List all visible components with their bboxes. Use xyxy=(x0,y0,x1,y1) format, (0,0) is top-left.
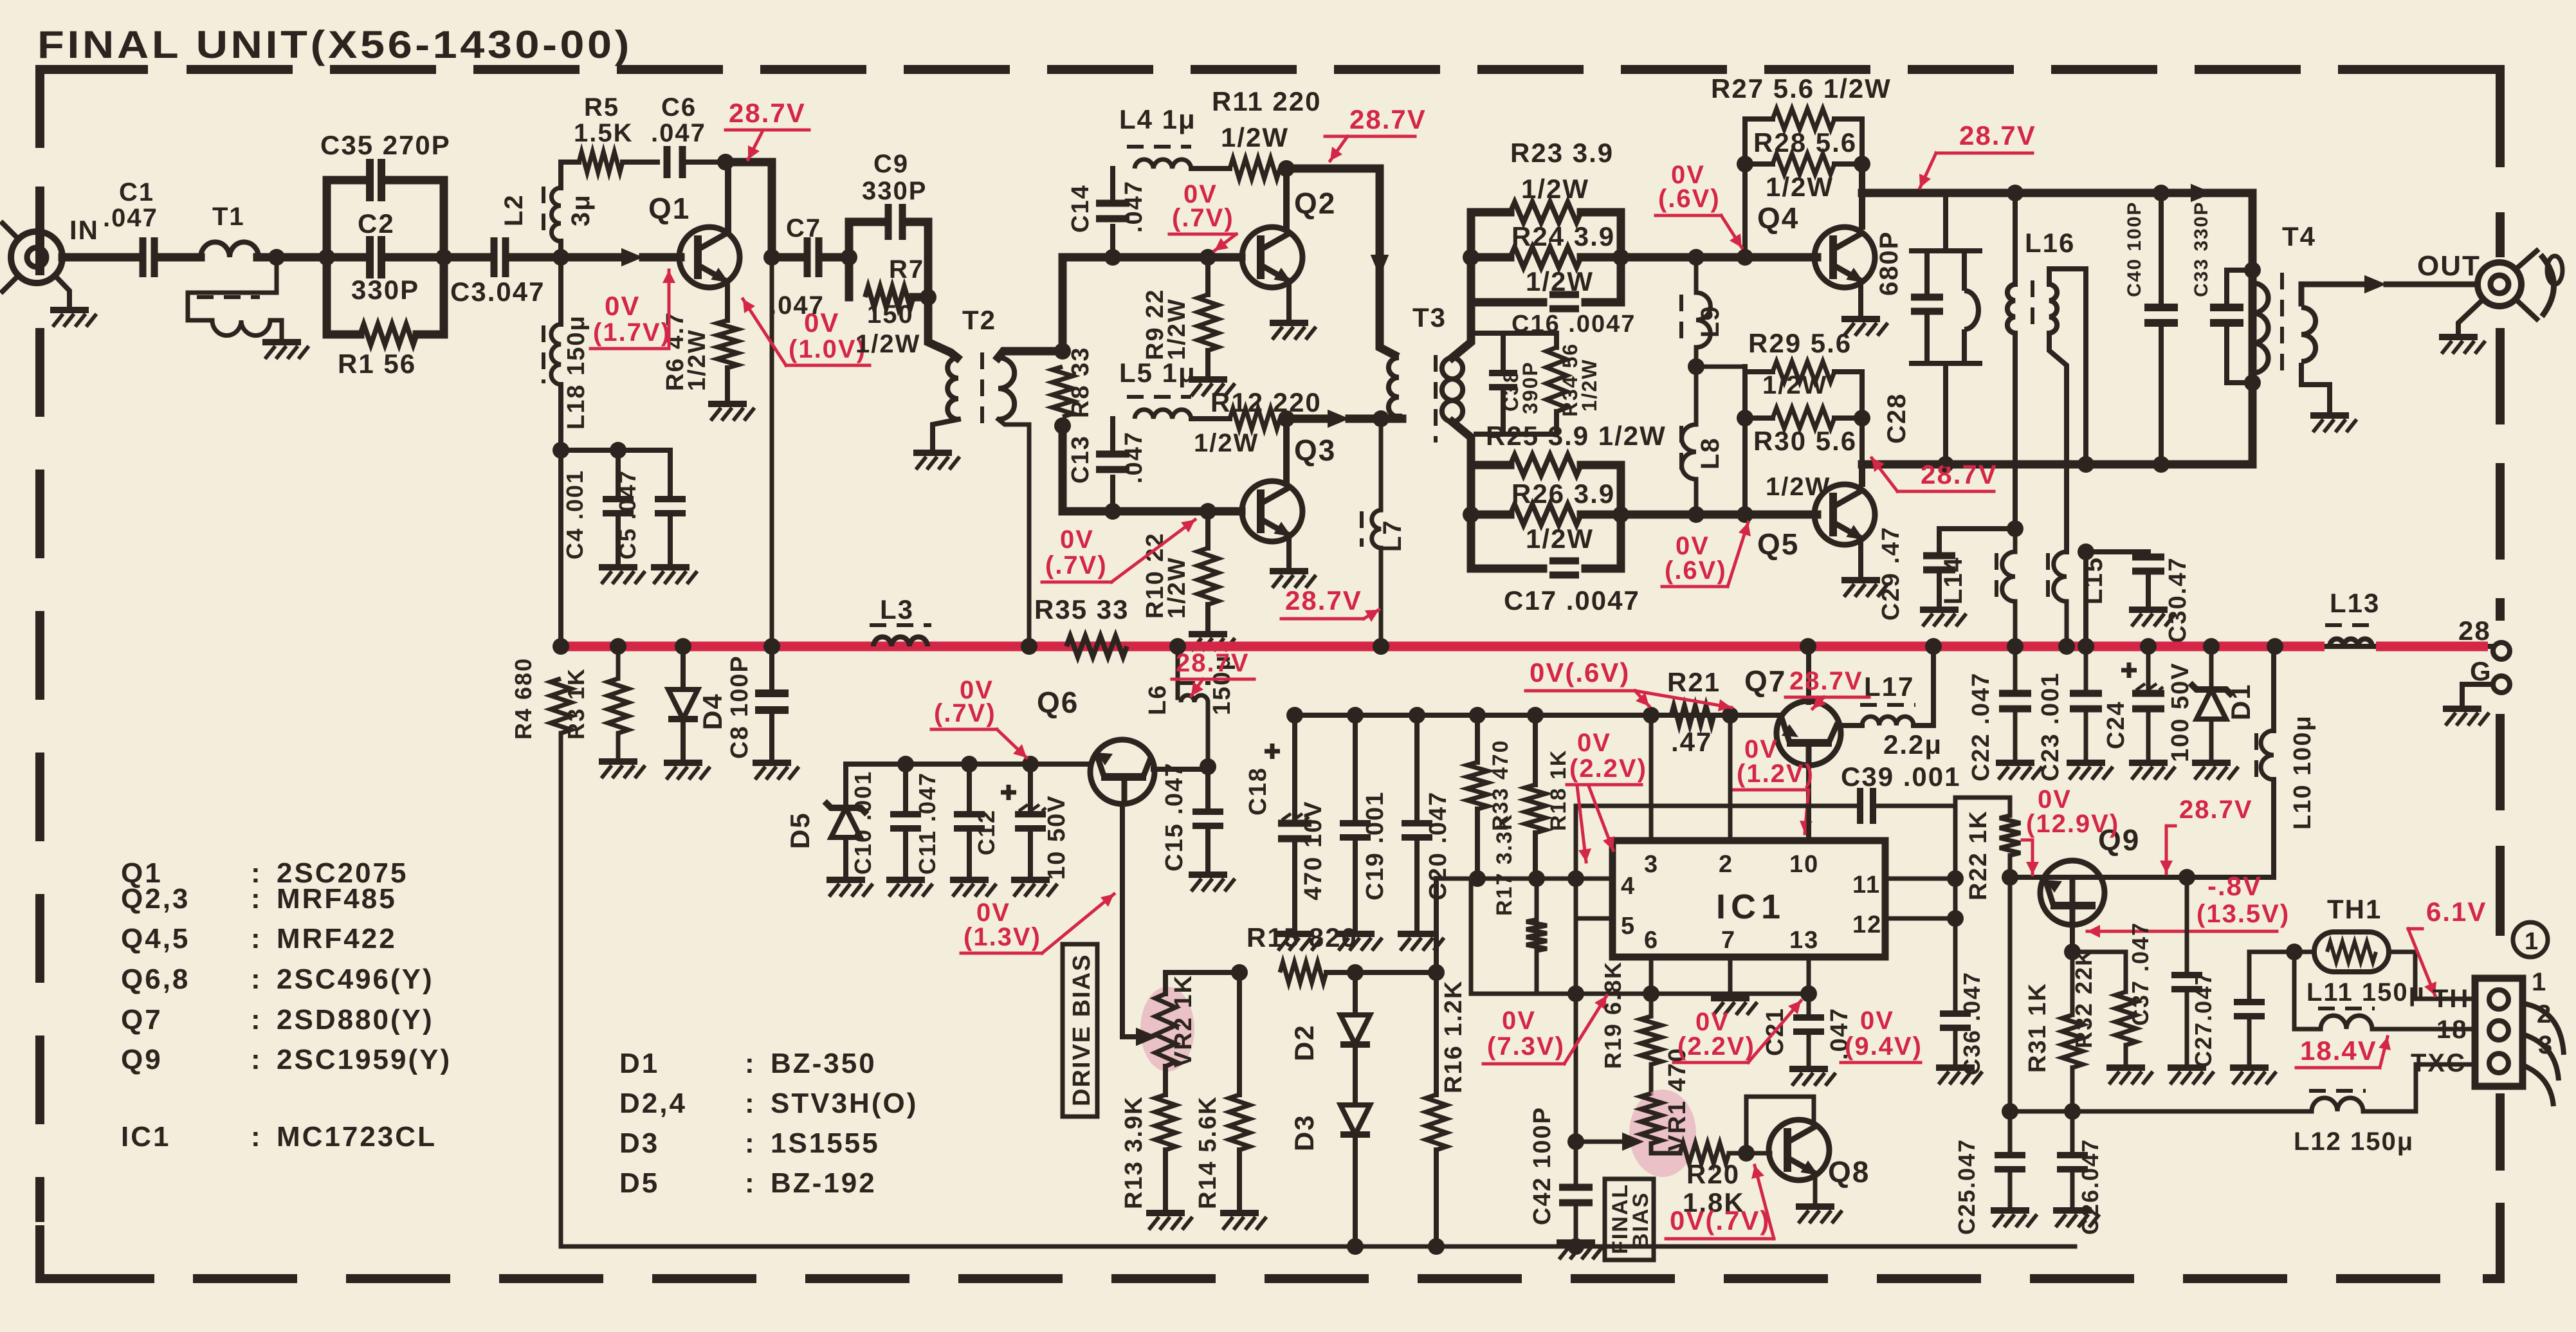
junction L7 tap xyxy=(1373,410,1389,427)
wire C29 to ground xyxy=(1937,570,1942,607)
wire C14 top to L4 xyxy=(1110,169,1115,203)
wire R16 column xyxy=(1434,972,1439,1095)
inductor loop of C28 tank xyxy=(1964,291,1978,329)
wire R25 branch right xyxy=(1581,461,1621,470)
ground at T1 secondary xyxy=(262,339,301,345)
svg-text:10: 10 xyxy=(1789,851,1819,878)
border top-right corner xyxy=(2393,69,2500,167)
svg-text:L9: L9 xyxy=(1696,305,1724,338)
svg-text:L13: L13 xyxy=(2330,588,2380,618)
svg-text:MRF422: MRF422 xyxy=(277,923,397,954)
wire C28 feed xyxy=(1943,193,1948,251)
wire feed into T3 primary xyxy=(1380,334,1394,355)
wire C8 to ground xyxy=(769,710,774,760)
svg-text:R12 220: R12 220 xyxy=(1210,387,1322,417)
wire C35 block left rail xyxy=(323,180,331,334)
ground at C4 xyxy=(599,564,637,570)
svg-text:L17: L17 xyxy=(1864,671,1914,702)
wire C27 top xyxy=(2247,952,2252,1002)
diode D2 xyxy=(1340,1015,1370,1045)
wire D1 column xyxy=(2209,646,2214,687)
ground at D5 xyxy=(827,877,865,883)
wire D3 to bottom rail xyxy=(1353,1137,1358,1246)
svg-text:5: 5 xyxy=(1621,913,1636,940)
wire R15 line to R16 corner xyxy=(1355,970,1436,975)
svg-text:D1: D1 xyxy=(2225,683,2256,720)
ground at C5 xyxy=(651,564,690,570)
junction T4 primary top xyxy=(2244,262,2261,278)
wire C37 column xyxy=(2185,877,2189,975)
svg-text:28.7V: 28.7V xyxy=(1176,649,1250,677)
svg-text:(1.2V): (1.2V) xyxy=(1737,760,1814,788)
wire IC pin10 feed xyxy=(1807,806,1811,841)
red arrow to Q5 base xyxy=(1728,522,1748,587)
ground at D1 xyxy=(2192,760,2231,766)
svg-text:Q6: Q6 xyxy=(1037,686,1079,719)
svg-text:C30.47: C30.47 xyxy=(2164,556,2191,643)
wire R25 block left rail xyxy=(1467,465,1475,569)
transformer T4 secondary xyxy=(2301,307,2316,361)
wire L16R feed to rail xyxy=(2083,552,2088,646)
svg-text:R5: R5 xyxy=(584,93,619,122)
ground at C18 xyxy=(1275,931,1314,937)
connector P1 mating curves xyxy=(2523,1003,2564,1106)
junction D2 top xyxy=(1347,964,1364,981)
transformer T3 core xyxy=(1434,355,1438,442)
inductor L4 core dashes xyxy=(1127,145,1191,149)
svg-text:1/2W: 1/2W xyxy=(1221,122,1289,152)
svg-text:28.7V: 28.7V xyxy=(1285,585,1362,616)
wire C18 column xyxy=(1292,715,1297,823)
inductor L5 xyxy=(1135,410,1191,419)
wire R32 to ground xyxy=(2124,1045,2128,1065)
junction R28 left xyxy=(1737,156,1753,172)
wire C33 column bottom xyxy=(2224,323,2229,383)
wire C4/C5 rail xyxy=(561,448,670,453)
svg-text:C26.047: C26.047 xyxy=(2077,1138,2103,1235)
svg-text:T4: T4 xyxy=(2282,221,2316,251)
wire C25 to ground xyxy=(2008,1169,2013,1208)
svg-text:R26 3.9: R26 3.9 xyxy=(1512,479,1615,509)
diode D4 xyxy=(668,689,698,719)
transformer T2 secondary xyxy=(998,358,1014,419)
inductor L8 core dashes xyxy=(1679,426,1683,477)
capacitor C26 xyxy=(2057,1155,2088,1169)
junction Q2 base node xyxy=(1200,249,1216,266)
wire C33 column xyxy=(2224,270,2229,307)
wire C20 to ground xyxy=(1414,837,1420,931)
svg-text:7: 7 xyxy=(1721,927,1736,954)
wire C15 column xyxy=(1205,767,1210,812)
wire R29 branch right xyxy=(1834,369,1862,374)
ground at R32 xyxy=(2106,1064,2145,1071)
ground at R10 xyxy=(1189,631,1227,637)
svg-text:Q3: Q3 xyxy=(1294,433,1336,467)
svg-text::: : xyxy=(251,1004,262,1035)
junction R30 left xyxy=(1737,410,1753,426)
wire C13 column xyxy=(1110,477,1115,511)
border bottom-right corner xyxy=(2483,1241,2500,1279)
ground at G terminal xyxy=(2443,706,2481,712)
junction R30 right xyxy=(1854,410,1870,426)
svg-text:IC1: IC1 xyxy=(121,1121,170,1153)
wire IC pin13 stub xyxy=(1807,957,1811,994)
capacitor C36 xyxy=(1940,1014,1971,1028)
resistor R26 xyxy=(1510,504,1581,525)
junction on rail at rail junction L6 xyxy=(1169,638,1186,655)
wire R27 block right rail xyxy=(1859,119,1865,164)
resistor R27 xyxy=(1773,109,1834,129)
wire C1 to T1 xyxy=(160,253,201,262)
red arrow 28.7V to Q4 line xyxy=(1920,153,1936,188)
wire R15 to D2 node xyxy=(1326,970,1355,975)
wire C28 column bottom xyxy=(1924,311,1930,363)
wire L18 to C4/C5 node xyxy=(558,385,563,646)
inductor L6 core dashes xyxy=(1178,681,1210,685)
svg-text:28.7V: 28.7V xyxy=(1349,104,1427,134)
thermistor TH1 element xyxy=(2327,942,2376,962)
svg-text:-.8V: -.8V xyxy=(2207,871,2262,901)
inductor L12 xyxy=(2312,1098,2363,1111)
svg-text:R25 3.9 1/2W: R25 3.9 1/2W xyxy=(1486,421,1667,451)
svg-text:4: 4 xyxy=(1621,873,1636,900)
wire C26 column xyxy=(2070,1111,2075,1155)
wire R7/C9 block left rail xyxy=(845,222,854,297)
junction bias rail at C18 xyxy=(1286,707,1303,724)
resistor R34 xyxy=(1546,347,1567,412)
border left edge xyxy=(35,187,44,1222)
red arrow to Q8 base xyxy=(1755,1165,1774,1239)
wire Q6 right lead xyxy=(1153,767,1208,772)
wire R25 branch left xyxy=(1471,461,1510,470)
ground at Q4 emitter xyxy=(1841,316,1880,322)
svg-text:L5 1μ: L5 1μ xyxy=(1119,358,1196,388)
wire Q3 emitter lead xyxy=(1286,538,1292,569)
junction main line at C35 block right xyxy=(435,249,452,266)
ground at C21 xyxy=(1789,1066,1828,1072)
wire C38 bottom rail xyxy=(1476,432,1557,437)
svg-text:L4 1μ: L4 1μ xyxy=(1119,104,1196,134)
capacitor C38 xyxy=(1489,373,1517,387)
red arrow 28.7V to Q7 xyxy=(1813,697,1824,709)
wire Q1 emitter xyxy=(725,282,730,320)
svg-text:C12: C12 xyxy=(973,809,1000,855)
red arrow 6.1V to TH xyxy=(2408,929,2435,996)
svg-text:330P: 330P xyxy=(351,275,419,305)
svg-text:(1.7V): (1.7V) xyxy=(593,318,671,347)
svg-text:OUT: OUT xyxy=(2417,250,2481,282)
arrow VR2 wiper xyxy=(1136,1028,1158,1046)
junction C28 bottom on line xyxy=(1937,456,1954,473)
svg-text:R14 5.6K: R14 5.6K xyxy=(1194,1095,1221,1209)
svg-text:L10 100μ: L10 100μ xyxy=(2289,715,2316,830)
diode D1 zener xyxy=(2197,689,2226,719)
wire L16 right bottom xyxy=(2049,333,2067,552)
wire T3 secondary bottom riser xyxy=(1452,422,1471,465)
red arrow 28.7V at Q1 xyxy=(748,132,762,160)
ground at R6 xyxy=(708,401,747,407)
junction on rail at rail junction T2 return xyxy=(1021,638,1037,655)
wire L8 bottom xyxy=(1694,479,1699,515)
junction Q3 base node xyxy=(1200,503,1216,520)
junction TH1 node xyxy=(2286,944,2303,960)
svg-text:C35 270P: C35 270P xyxy=(320,130,451,160)
resistor R8 xyxy=(1052,367,1073,417)
ground at C22 xyxy=(1996,760,2034,766)
junction Q9 base node xyxy=(2002,869,2018,886)
svg-text:0V(.6V): 0V(.6V) xyxy=(1530,657,1630,688)
capacitor C35 xyxy=(370,159,381,201)
wire C13 top to L5 xyxy=(1110,419,1115,454)
wire R23 block right rail xyxy=(1617,212,1625,302)
wire Q5 collector lead xyxy=(1859,464,1865,484)
wire Q4 collector lead xyxy=(1859,164,1865,226)
circled numeral 1 marker xyxy=(2513,922,2548,957)
wire Q4 emitter xyxy=(1858,283,1863,316)
svg-text:.47: .47 xyxy=(1671,727,1712,757)
svg-text:(7.3V): (7.3V) xyxy=(1487,1032,1565,1061)
transformer L16 core xyxy=(2031,280,2034,334)
junction L7 on rail xyxy=(1373,638,1389,655)
svg-text:.047: .047 xyxy=(769,291,825,320)
wire L14 column xyxy=(2013,529,2018,552)
wire TH1 to connector xyxy=(2389,952,2475,999)
svg-text:6.1V: 6.1V xyxy=(2426,897,2487,927)
wire Q4 collector thick line xyxy=(1862,189,2252,197)
terminal 28 on rail xyxy=(2493,643,2510,659)
ground at C42 xyxy=(1557,1239,1595,1246)
junction pin5 column at y1545 xyxy=(1567,985,1584,1002)
svg-text:R28 5.6: R28 5.6 xyxy=(1753,127,1857,158)
wire R18 column xyxy=(1533,715,1538,785)
wire R30 branch left xyxy=(1745,415,1773,421)
svg-text:D4: D4 xyxy=(697,693,727,730)
svg-text:2SC1959(Y): 2SC1959(Y) xyxy=(277,1044,452,1075)
junction L9 tap xyxy=(1688,249,1704,266)
junction bias rail at R33 xyxy=(1469,707,1486,724)
transformer T1 primary coil xyxy=(201,242,259,257)
red underline (9.4V) xyxy=(1841,1061,1921,1064)
ground at T4 secondary xyxy=(2310,412,2349,419)
border top edge xyxy=(187,65,2494,74)
wire R28 branch right xyxy=(1834,161,1862,167)
junction block right on Q4 line xyxy=(1612,249,1629,266)
ground at C12 xyxy=(1011,877,1050,883)
junction pin12 stub xyxy=(1947,910,1964,927)
red arrow to Q9 base xyxy=(2031,862,2034,875)
wire R29 block right rail xyxy=(1859,372,1865,418)
inductor L15 core dashes xyxy=(2046,553,2050,599)
wire supply feed down to rail xyxy=(770,257,774,646)
junction on rail at rail junction R4 xyxy=(553,638,569,655)
ground at C26 xyxy=(2053,1207,2092,1214)
junction T2 return on rail xyxy=(1021,638,1037,655)
wire R34 top xyxy=(1554,333,1559,347)
svg-text::: : xyxy=(251,963,262,995)
IN connector J1 xyxy=(11,232,62,283)
IN connector stub lower-left xyxy=(3,276,18,291)
svg-text::: : xyxy=(251,883,262,915)
svg-text:C3.047: C3.047 xyxy=(450,277,545,307)
wire L14 to rail xyxy=(2013,601,2018,646)
svg-text:330P: 330P xyxy=(862,177,927,205)
wire R19 to VR1 xyxy=(1649,1064,1654,1093)
svg-text:C25.047: C25.047 xyxy=(1953,1138,1980,1235)
svg-text:1/2W: 1/2W xyxy=(1194,429,1259,457)
junction L16R top feed on line xyxy=(2078,456,2094,473)
junction C13 tap xyxy=(1104,503,1121,520)
wire C2 branch left xyxy=(327,253,364,262)
inductor L13 core dashes xyxy=(2325,623,2376,627)
wire Q2 collector lead xyxy=(1283,169,1290,226)
svg-text:C15 .047: C15 .047 xyxy=(1161,762,1188,871)
svg-text:L11 150μ: L11 150μ xyxy=(2307,978,2425,1007)
capacitor C7 xyxy=(807,237,819,277)
svg-text:VR2 1K: VR2 1K xyxy=(1170,974,1197,1068)
junction Q5 base node xyxy=(1737,506,1753,523)
wire D2 column xyxy=(1353,972,1358,1015)
junction L9 bottom xyxy=(1688,358,1704,375)
transformer T4 core xyxy=(2280,273,2284,381)
wire C23 to ground xyxy=(2084,709,2088,760)
red underline (7.3V) xyxy=(1483,1063,1564,1066)
red arrow to y1545 line xyxy=(1564,996,1607,1064)
wire VR1 wiper xyxy=(1576,1140,1629,1144)
wire R6 to ground xyxy=(725,368,730,402)
red underline (1.3V) xyxy=(961,952,1042,955)
junction R16 top xyxy=(1428,964,1445,981)
junction on main line at T1 xyxy=(268,249,285,266)
inductor L3 core dashes xyxy=(870,623,931,627)
wire L11 to connector xyxy=(2372,1027,2475,1032)
wire R31 column xyxy=(2070,952,2075,1015)
capacitor C39 xyxy=(1860,788,1873,824)
junction R19 top xyxy=(1643,985,1659,1002)
svg-text:1/2W: 1/2W xyxy=(1766,172,1834,202)
wire C39 to pin11 node xyxy=(1878,798,1955,806)
resistor R1 xyxy=(360,324,417,345)
capacitor C14 xyxy=(1096,203,1129,219)
inductor L18 xyxy=(551,324,561,385)
wire T4 secondary top to OUT xyxy=(2301,284,2362,304)
red arrow to Q7 emitter xyxy=(1805,790,1809,834)
wire R14 to ground xyxy=(1237,1150,1242,1210)
svg-text:(1.3V): (1.3V) xyxy=(964,923,1041,951)
wire D4 to ground xyxy=(681,722,686,760)
wire D1 to ground xyxy=(2209,719,2214,760)
wire C27 to ground xyxy=(2247,1016,2252,1065)
wire C22 column xyxy=(2013,646,2018,693)
wire C21 to ground xyxy=(1807,1032,1811,1066)
red arrow 28.7V to L6 xyxy=(1191,679,1203,696)
red arrow -.8V to Q9 xyxy=(2087,930,2277,933)
svg-text:Q6,8: Q6,8 xyxy=(121,963,190,995)
junction R16 on bottom rail xyxy=(1428,1238,1445,1255)
junction C30 tap xyxy=(2078,543,2094,560)
transformer T3 primary xyxy=(1389,358,1399,417)
svg-text:T3: T3 xyxy=(1412,302,1447,333)
wire C19 to ground xyxy=(1353,837,1358,931)
potentiometer VR2 highlight xyxy=(1140,987,1194,1072)
wire C12 to ground xyxy=(1028,828,1033,877)
red arrow to R21 left xyxy=(1635,691,1649,706)
wire IC pin12 stub xyxy=(1885,917,1955,921)
svg-text:R29 5.6: R29 5.6 xyxy=(1748,328,1852,358)
thermistor TH1 xyxy=(2314,932,2389,972)
wire R29 block left rail xyxy=(1742,367,1748,515)
svg-text:3: 3 xyxy=(1644,851,1659,878)
wire Q7 collector to rail xyxy=(1806,646,1811,702)
inductor L15 xyxy=(2054,552,2067,601)
wire L7 column upper xyxy=(1379,419,1384,510)
junction C12 top xyxy=(1022,756,1039,772)
junction on rail at rail junction C8/Q1 feed xyxy=(763,638,780,655)
wire pin5 column xyxy=(1574,806,1578,1142)
red underline 28.7V Q5 xyxy=(1897,490,1994,493)
svg-text:C24: C24 xyxy=(2103,700,2130,749)
connector P1 pin 2 circle xyxy=(2489,1021,2508,1040)
wire L17 to rail xyxy=(1914,646,1933,725)
red underline 28.7V Q4 xyxy=(1936,152,2032,155)
svg-text:Q1: Q1 xyxy=(648,192,690,225)
junction lower block left xyxy=(1463,506,1479,523)
red underline (1.0V) xyxy=(786,364,870,367)
svg-text:0V(.7V): 0V(.7V) xyxy=(1670,1205,1770,1236)
wire L16 left top xyxy=(2013,193,2018,284)
ground at IN connector xyxy=(50,307,89,313)
wire C25 column xyxy=(2008,1111,2013,1155)
wire Q1 collector xyxy=(725,162,731,232)
resistor R32 xyxy=(2115,992,2136,1045)
wire C15 to ground xyxy=(1205,826,1210,872)
connector P1 body xyxy=(2475,978,2523,1086)
svg-text:28.7V: 28.7V xyxy=(1921,459,1998,489)
red arrow 28.7V to L7 xyxy=(1364,610,1379,619)
svg-text:18: 18 xyxy=(2436,1016,2468,1044)
wire C4 to ground xyxy=(616,513,621,565)
junction Q8 base xyxy=(1738,1145,1755,1162)
svg-text:0V: 0V xyxy=(1502,1007,1536,1035)
ground at R14 xyxy=(1220,1210,1259,1216)
wire C17 branch right xyxy=(1585,565,1621,573)
transistor Q9 xyxy=(2040,861,2105,925)
wire C16 branch right xyxy=(1585,298,1621,307)
svg-text:Q4,5: Q4,5 xyxy=(121,923,190,954)
wire C38 top rail xyxy=(1476,331,1557,336)
svg-text:0V: 0V xyxy=(605,291,640,321)
inductor L2 xyxy=(551,188,561,241)
wire TXC line xyxy=(2010,1109,2312,1114)
inductor L7 xyxy=(1372,510,1381,548)
resistor R30 xyxy=(1773,408,1834,428)
ground at R13 xyxy=(1146,1210,1185,1216)
svg-text:BZ-350: BZ-350 xyxy=(771,1048,877,1079)
svg-text:D2: D2 xyxy=(1289,1024,1319,1061)
svg-text:(.7V): (.7V) xyxy=(1045,551,1108,579)
svg-text:Q9: Q9 xyxy=(121,1044,163,1075)
resistor R11 xyxy=(1230,158,1280,179)
red arrow to Q1 base xyxy=(668,270,671,349)
red arrow to R21 right xyxy=(1635,691,1731,707)
wire R26 branch right xyxy=(1581,511,1621,519)
svg-text:L16: L16 xyxy=(2025,228,2075,258)
ground at Q5 emitter xyxy=(1841,577,1880,583)
svg-text:R13 3.9K: R13 3.9K xyxy=(1120,1095,1147,1209)
wire Q3 base line xyxy=(1063,507,1241,516)
inductor L4 xyxy=(1135,160,1191,169)
red underline 28.7V L7 xyxy=(1281,617,1364,621)
wire R20 to Q8 base xyxy=(1729,1151,1746,1156)
